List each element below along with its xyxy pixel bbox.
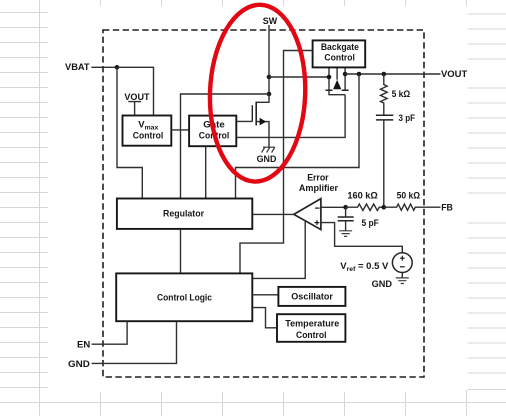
ground (triple-bar) under C2 <box>339 231 352 237</box>
capacitor C2 5 pF <box>345 207 347 217</box>
capacitor C1 3 pF <box>376 115 393 120</box>
svg-text:5 pF: 5 pF <box>362 218 379 229</box>
svg-text:EN: EN <box>77 339 90 350</box>
wire Control Logic to non-inverting net <box>252 221 305 278</box>
node rail dot at x=359 <box>357 72 362 77</box>
block Control Logic <box>116 273 252 321</box>
svg-text:3 pF: 3 pF <box>399 113 416 124</box>
dashed IC boundary box <box>103 30 424 377</box>
svg-text:GND: GND <box>372 279 393 289</box>
wire Regulator to Control Logic <box>180 229 182 274</box>
plus input mark <box>315 220 320 225</box>
op-amp U1 error amplifier <box>294 199 321 230</box>
block Backgate Control <box>313 40 366 67</box>
resistor R1 5 kOhm <box>381 74 388 115</box>
wire VOUT node tick to Vmax Control <box>128 102 141 116</box>
backgate switch pair <box>326 68 349 95</box>
block Temperature Control <box>277 314 345 342</box>
wire GND pin to Control Logic <box>92 321 177 363</box>
node drain junction dot <box>267 92 272 97</box>
wire op-amp output to Regulator <box>252 213 293 215</box>
svg-text:GND: GND <box>68 359 90 370</box>
resistor R3 50 kOhm <box>384 204 441 210</box>
block Regulator <box>117 199 252 229</box>
node SW junction dot <box>267 75 272 80</box>
node FB divider junction dot <box>382 205 387 210</box>
wire Vref to ground <box>401 273 403 278</box>
wire VBAT node to Vmax Control top <box>117 67 154 115</box>
wire Control Logic to Oscillator <box>252 294 278 296</box>
svg-text:Temperature: Temperature <box>285 318 339 329</box>
voltage source Vref <box>392 253 412 273</box>
node rail dot at divider <box>382 72 387 77</box>
svg-text:Control: Control <box>133 131 164 142</box>
wire Control Logic to Temperature Control <box>252 308 277 328</box>
svg-text:160 kΩ: 160 kΩ <box>347 191 378 202</box>
svg-text:Regulator: Regulator <box>163 209 204 220</box>
wire from rail down and left into Regulator <box>236 74 360 199</box>
wire gate lead from Gate Control <box>236 120 252 122</box>
wire drain node left to Regulator top <box>181 94 270 199</box>
wire SW node down to drain node <box>268 77 270 94</box>
wire non-inverting input to Vref <box>321 223 402 253</box>
annotation red ellipse <box>207 3 308 183</box>
transistor Q1 pass NMOS <box>252 94 269 147</box>
svg-text:VOUT: VOUT <box>441 69 467 80</box>
node backgate left dot <box>327 75 332 80</box>
wire VBAT node down to Regulator top <box>117 67 142 198</box>
block Vmax Control <box>123 116 172 146</box>
wire inverting input to FB node <box>321 206 346 208</box>
svg-text:Amplifier: Amplifier <box>299 183 338 194</box>
svg-text:GND: GND <box>257 154 277 164</box>
node FB-C2 junction dot <box>343 205 348 210</box>
svg-text:FB: FB <box>441 202 453 213</box>
wire SW node to backgate switch left <box>269 76 329 78</box>
svg-text:Control Logic: Control Logic <box>157 293 212 304</box>
block Oscillator <box>278 287 345 306</box>
wire Gate Control to backgate switch (y=137.4) <box>236 95 345 138</box>
svg-text:VBAT: VBAT <box>65 62 90 73</box>
svg-text:SW: SW <box>263 16 277 27</box>
ground (triple-bar) under Vref <box>396 278 409 284</box>
ground (fork) under Q1 source <box>262 147 275 152</box>
wire Backgate Control to Control Logic <box>240 51 313 274</box>
wire SW pin down to SW node <box>268 25 270 77</box>
block Gate Control <box>189 116 236 147</box>
wire divider down to FB node <box>383 120 385 207</box>
svg-text:Control: Control <box>296 330 327 341</box>
wire EN pin to Control Logic <box>92 321 128 344</box>
svg-text:Control: Control <box>324 52 355 63</box>
node VBAT junction dot <box>115 65 120 70</box>
svg-text:5 kΩ: 5 kΩ <box>392 89 411 100</box>
minus input mark <box>315 207 320 209</box>
wire Vmax Control to Gate Control <box>171 129 189 131</box>
wire VBAT pin to node <box>91 66 117 68</box>
wire VOUT rail <box>345 73 440 75</box>
resistor R2 160 kOhm <box>346 204 384 211</box>
svg-text:Oscillator: Oscillator <box>291 292 333 303</box>
svg-text:50 kΩ: 50 kΩ <box>397 191 421 202</box>
node backgate right dot <box>343 72 348 77</box>
svg-text:Error: Error <box>307 172 329 183</box>
wire Gate Control bottom to Regulator <box>205 146 207 198</box>
